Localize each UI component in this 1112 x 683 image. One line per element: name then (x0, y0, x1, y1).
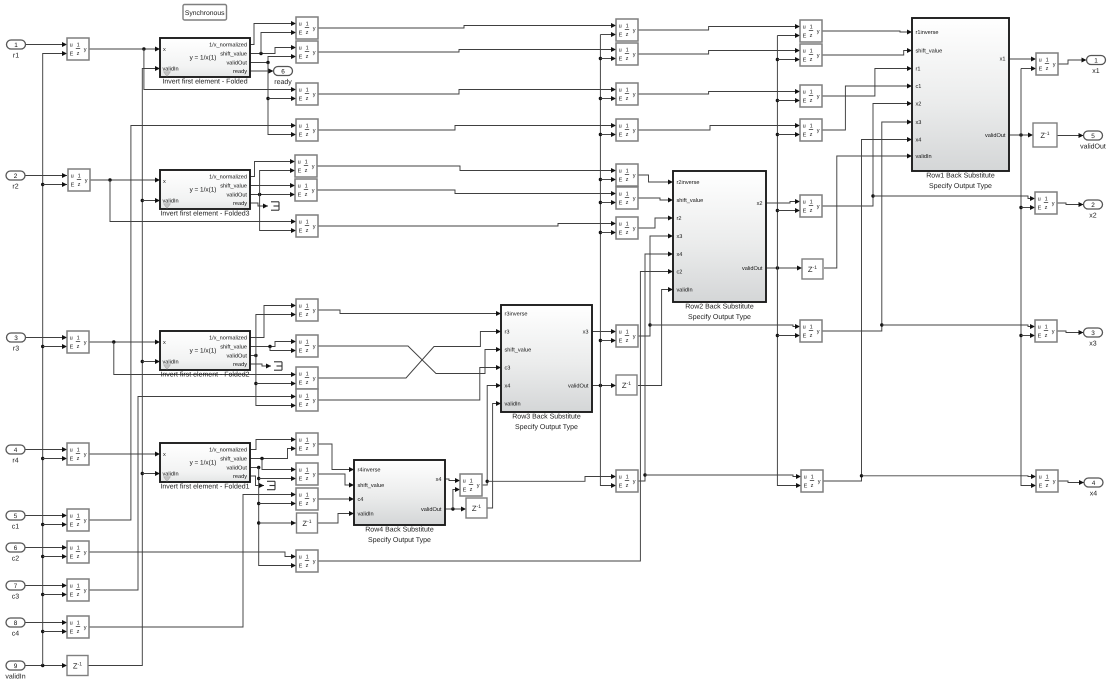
svg-text:z: z (77, 554, 80, 560)
svg-text:Specify Output Type: Specify Output Type (688, 313, 751, 321)
svg-text:y: y (84, 452, 87, 458)
svg-text:1: 1 (810, 25, 813, 31)
wire r2 delay to Folded3.x (89, 178, 160, 183)
svg-text:y: y (84, 625, 87, 631)
wire Folded shift branch to D1 enable (261, 30, 296, 54)
svg-text:y: y (85, 178, 88, 184)
svg-text:1: 1 (78, 174, 81, 180)
hold D3 (296, 83, 318, 105)
wire E1 to F1 (638, 24, 800, 30)
svg-text:y: y (313, 442, 316, 448)
wire hold D12 to Row3 c3 (318, 365, 501, 400)
wire Folded2 shift branch to D10 enable (270, 347, 296, 354)
svg-text:Specify Output Type: Specify Output Type (368, 536, 431, 544)
svg-text:z: z (306, 476, 309, 482)
hold F1 (800, 20, 822, 42)
wire G2 up to Row1 x2 (822, 101, 912, 206)
hold x4 output (1036, 470, 1058, 492)
svg-text:z: z (810, 333, 813, 339)
svg-text:x4: x4 (677, 252, 683, 258)
svg-text:1: 1 (77, 621, 80, 627)
hold D9 (296, 299, 318, 321)
svg-text:y: y (1053, 479, 1056, 485)
svg-text:c4: c4 (12, 631, 20, 638)
delay Z after Row2 validOut (802, 259, 823, 279)
svg-text:Specify Output Type: Specify Output Type (929, 182, 992, 190)
svg-text:r2inverse: r2inverse (677, 179, 700, 186)
svg-text:u: u (619, 191, 622, 197)
svg-text:y: y (633, 128, 636, 134)
svg-text:z: z (626, 200, 629, 206)
svg-text:y: y (313, 50, 316, 56)
svg-text:y: y (312, 188, 315, 194)
svg-text:1: 1 (626, 222, 629, 228)
svg-text:u: u (70, 447, 73, 453)
svg-text:u: u (71, 173, 74, 179)
svg-text:x: x (163, 340, 166, 346)
hold G3 x3 (800, 320, 822, 342)
svg-text:y: y (313, 497, 316, 503)
svg-text:z: z (626, 132, 629, 138)
svg-text:r1: r1 (916, 67, 921, 73)
wire hold D1 to E1 (318, 23, 616, 28)
svg-text:y: y (633, 334, 636, 340)
inport 1 r1 (7, 40, 26, 60)
svg-text:z: z (626, 96, 629, 102)
wire Z to outport validOut (1057, 133, 1084, 138)
svg-text:1: 1 (1094, 57, 1098, 64)
subsystem Row4 Back Substitute (354, 460, 445, 544)
svg-text:c1: c1 (12, 524, 20, 531)
svg-text:y = 1/x(1): y = 1/x(1) (190, 459, 217, 466)
svg-text:z: z (810, 132, 813, 138)
inport 5 c1 (6, 511, 25, 531)
wire hold D15 to Row4 c4 (318, 497, 354, 502)
svg-text:1/x_normalized: 1/x_normalized (209, 335, 247, 342)
wire Folded1 shift branch to hold D14 (262, 459, 296, 473)
wire Row3 validOut to Z (592, 383, 616, 388)
wire Row1 validOut enable bus (1019, 66, 1036, 488)
svg-text:ready: ready (233, 68, 247, 75)
wire c2 delay to hold (89, 552, 296, 559)
svg-text:u: u (299, 393, 302, 399)
svg-text:c3: c3 (12, 594, 20, 601)
wire c4 port to delay (25, 620, 67, 625)
svg-text:z: z (810, 208, 813, 214)
subsystem Invert first element - Folded (160, 38, 250, 86)
svg-text:u: u (299, 467, 302, 473)
wire x3 long line to G3 (650, 324, 800, 329)
enabled delay c4 (67, 616, 89, 638)
svg-text:ready: ready (233, 200, 247, 207)
wire F1 to Row1 r1inverse (822, 30, 912, 35)
svg-text:E: E (1039, 484, 1043, 490)
svg-text:Synchronous: Synchronous (185, 10, 225, 17)
svg-text:E: E (70, 555, 74, 561)
svg-text:x4: x4 (1090, 491, 1098, 498)
inport 2 r2 (6, 171, 25, 191)
wire hold D10 to Row3 shift_value crossing (318, 346, 501, 374)
svg-text:7: 7 (14, 583, 18, 590)
wire validIn port to Z delay (25, 663, 67, 668)
svg-text:r3inverse: r3inverse (505, 311, 528, 318)
wire Row1 x1 to G1 (1009, 57, 1036, 62)
svg-text:u: u (803, 48, 806, 54)
wire E7 to Row2 r2 (638, 216, 673, 229)
wire r1 delay to Folded.x (89, 47, 160, 52)
wire Folded3 validOut branch to D7 enable (260, 195, 296, 234)
svg-text:validIn: validIn (505, 401, 521, 408)
hold E7 (616, 217, 638, 239)
wire Folded1 1/x_normalized to hold D13 (250, 437, 296, 450)
svg-text:1: 1 (77, 514, 80, 520)
wire r4 port to delay (25, 447, 67, 452)
hold D10 (296, 335, 318, 357)
svg-text:y: y (313, 559, 316, 565)
svg-text:4: 4 (1092, 480, 1096, 487)
svg-text:E: E (804, 484, 808, 490)
outport 5 validOut (1080, 131, 1106, 151)
svg-text:c2: c2 (677, 270, 683, 276)
wire E3 to F3 (638, 89, 800, 94)
outport 3 x3 (1084, 328, 1103, 348)
svg-text:y: y (1052, 201, 1055, 207)
svg-text:y: y (817, 204, 820, 210)
terminator Folded2 ready (274, 362, 282, 370)
wire hold D7 to E7 (318, 221, 616, 226)
svg-text:z: z (77, 522, 80, 528)
svg-text:u: u (463, 478, 466, 484)
wire x2 long line to output hold (873, 196, 1035, 201)
svg-text:z: z (1045, 205, 1048, 211)
wire Row4 x4 to delay (445, 478, 460, 483)
svg-text:1: 1 (626, 475, 629, 481)
svg-text:validOut: validOut (226, 60, 247, 67)
wire Folded2 validOut branch to D11 D12 enables (254, 356, 296, 409)
hold D1 (296, 17, 318, 39)
wire r3 branch to hold (114, 342, 296, 377)
svg-text:x4: x4 (916, 138, 922, 144)
svg-text:validOut: validOut (568, 383, 589, 390)
svg-text:4: 4 (14, 447, 18, 454)
svg-text:x4: x4 (436, 477, 442, 483)
svg-text:u: u (1039, 474, 1042, 480)
wire hold D6 to E6 (317, 190, 616, 196)
svg-text:1: 1 (810, 325, 813, 331)
svg-text:shift_value: shift_value (220, 456, 247, 463)
svg-text:2: 2 (14, 173, 18, 180)
svg-text:1: 1 (306, 46, 309, 52)
svg-text:u: u (299, 339, 302, 345)
svg-text:y: y (313, 224, 316, 230)
svg-text:E: E (619, 57, 623, 63)
svg-text:1/x_normalized: 1/x_normalized (209, 447, 247, 454)
svg-text:x2: x2 (1089, 213, 1097, 220)
svg-text:E: E (1038, 334, 1042, 340)
wire Row3 validOut enable bus to E column (599, 32, 616, 488)
svg-text:E: E (70, 52, 74, 58)
wire r3 port to delay (25, 335, 67, 340)
wire output hold to outport x4 (1058, 480, 1084, 485)
svg-text:y: y (84, 550, 87, 556)
svg-text:1: 1 (1046, 58, 1049, 64)
wire Folded2 1/x_normalized to hold D9 (250, 303, 296, 338)
wire hold D2 to E2 (318, 47, 616, 52)
wire Folded2 validOut branch to D9 enable (256, 312, 296, 356)
wire E6 to Row2 shift_value (638, 198, 673, 203)
wire c1 delay to hold (89, 123, 296, 520)
svg-text:E: E (71, 183, 75, 189)
svg-text:Invert first element - Folded: Invert first element - Folded (162, 78, 247, 86)
wire E9 up to Row2 x4 (638, 252, 673, 482)
svg-text:u: u (299, 554, 302, 560)
svg-text:E: E (803, 34, 807, 40)
svg-text:E: E (70, 593, 74, 599)
delay Z validOut output (1033, 123, 1057, 147)
wire hold D13 to Row4 r4inverse (318, 444, 354, 472)
svg-text:u: u (619, 47, 622, 53)
svg-text:E: E (803, 133, 807, 139)
svg-text:E: E (803, 334, 807, 340)
wire r1 branch to hold (144, 49, 296, 92)
svg-text:1: 1 (626, 88, 629, 94)
wire F2 to Row1 shift_value (822, 48, 912, 55)
svg-text:c1: c1 (916, 84, 922, 90)
svg-text:r1inverse: r1inverse (916, 29, 939, 36)
wire Row4 Z to Row3 validIn (486, 401, 501, 508)
svg-text:validIn: validIn (677, 287, 693, 294)
svg-text:y: y (633, 92, 636, 98)
svg-text:1: 1 (1045, 197, 1048, 203)
svg-text:y: y (817, 29, 820, 35)
wire x3 long line to output hold (882, 324, 1035, 329)
svg-text:1/x_normalized: 1/x_normalized (209, 42, 247, 49)
svg-text:r2: r2 (12, 184, 18, 191)
svg-text:1/x_normalized: 1/x_normalized (209, 174, 247, 181)
svg-text:Row1 Back Substitute: Row1 Back Substitute (926, 172, 995, 180)
wire validIn enable bus (41, 51, 67, 666)
outport 1 x1 (1087, 56, 1106, 76)
svg-text:z: z (306, 54, 309, 60)
svg-text:z: z (470, 487, 473, 493)
wire hold D5 to E5 (317, 166, 616, 173)
svg-text:E: E (299, 349, 303, 355)
svg-text:validOut: validOut (226, 465, 247, 472)
svg-text:r4inverse: r4inverse (358, 467, 381, 474)
svg-text:E: E (299, 477, 303, 483)
wire E9 branch to G4 (645, 474, 801, 479)
svg-text:E: E (619, 97, 623, 103)
svg-text:y: y (313, 308, 316, 314)
svg-text:u: u (299, 371, 302, 377)
svg-text:E: E (299, 97, 303, 103)
wire G4 up to Row1 x4 (823, 137, 912, 481)
svg-text:z: z (306, 446, 309, 452)
svg-text:y: y (84, 340, 87, 346)
wire Row2 validOut to Z (766, 266, 802, 271)
wire hold D11 to Row3 r3 crossing (318, 329, 501, 378)
wire Row2 validOut enable bus (776, 33, 801, 488)
svg-text:validOut: validOut (985, 132, 1006, 139)
svg-text:1: 1 (1046, 475, 1049, 481)
hold x4 after Row4 (460, 474, 482, 496)
svg-text:z: z (810, 57, 813, 63)
wire hold D16 to Row2 c2 (318, 269, 673, 561)
enabled delay r3 (67, 331, 89, 353)
wire F4 to Row1 c1 (822, 84, 912, 131)
wire x4 delayed to Row3 x4 (482, 383, 501, 485)
wire Row4 validOut branch to delay enable (453, 487, 460, 509)
hold E4 (616, 119, 638, 141)
svg-text:3: 3 (14, 335, 18, 342)
svg-text:y: y (84, 47, 87, 53)
svg-text:z: z (306, 348, 309, 354)
wire G1 to outport x1 (1058, 58, 1087, 65)
svg-text:E: E (299, 403, 303, 409)
svg-text:1: 1 (306, 493, 309, 499)
svg-text:u: u (619, 123, 622, 129)
outport 2 x2 (1084, 200, 1103, 220)
hold D4 (296, 119, 318, 141)
enabled delay r4 (67, 443, 89, 465)
svg-text:y: y (313, 92, 316, 98)
svg-text:1: 1 (306, 438, 309, 444)
svg-text:validIn: validIn (358, 511, 374, 518)
wire r2 branch to hold (110, 180, 296, 224)
hold E6 (616, 187, 638, 209)
svg-text:y: y (817, 329, 820, 335)
hold D15 (296, 488, 318, 510)
svg-text:u: u (70, 545, 73, 551)
wire output hold to outport x3 (1057, 330, 1084, 335)
svg-text:z: z (1046, 66, 1049, 72)
wire x4 delayed branch to E9 (487, 474, 616, 481)
hold D13 (296, 433, 318, 455)
wire E5 to Row2 r2inverse (638, 175, 673, 185)
svg-text:u: u (299, 21, 302, 27)
svg-text:c4: c4 (358, 497, 364, 503)
enabled delay r1 (67, 38, 89, 60)
svg-text:z: z (306, 563, 309, 569)
svg-text:ready: ready (274, 78, 292, 86)
wire E4 to F4 (638, 123, 800, 130)
svg-text:u: u (1038, 324, 1041, 330)
svg-text:E: E (70, 457, 74, 463)
svg-text:z: z (810, 33, 813, 39)
svg-text:validOut: validOut (226, 353, 247, 360)
hold D7 (296, 215, 318, 237)
svg-text:y: y (1052, 329, 1055, 335)
wire F3 to Row1 r1 (822, 66, 912, 96)
svg-text:z: z (306, 132, 309, 138)
svg-text:y: y (633, 173, 636, 179)
svg-text:x1: x1 (1000, 57, 1006, 63)
svg-text:u: u (70, 513, 73, 519)
outport 6 ready (274, 67, 293, 87)
svg-text:z: z (77, 51, 80, 57)
svg-text:E: E (803, 209, 807, 215)
svg-text:1: 1 (626, 124, 629, 130)
svg-text:c3: c3 (505, 366, 511, 372)
svg-text:u: u (299, 303, 302, 309)
svg-text:shift_value: shift_value (220, 51, 247, 58)
svg-text:1: 1 (810, 90, 813, 96)
svg-text:x2: x2 (757, 201, 763, 207)
svg-text:x3: x3 (916, 120, 922, 126)
svg-text:z: z (77, 456, 80, 462)
svg-text:y: y (817, 128, 820, 134)
svg-text:y: y (313, 344, 316, 350)
svg-text:E: E (619, 339, 623, 345)
svg-text:z: z (306, 402, 309, 408)
svg-text:u: u (70, 42, 73, 48)
wire hold D4 to E4 (318, 123, 616, 130)
svg-text:y: y (633, 28, 636, 34)
svg-text:r1: r1 (13, 53, 19, 60)
svg-text:Row4 Back Substitute: Row4 Back Substitute (365, 526, 434, 534)
wire Folded validOut branch to D3 D4 enables (266, 63, 296, 138)
svg-text:z: z (77, 592, 80, 598)
svg-text:y: y (818, 479, 821, 485)
hold D5 (295, 155, 317, 177)
svg-text:E: E (803, 99, 807, 105)
svg-text:y: y (313, 398, 316, 404)
svg-text:E: E (299, 31, 303, 37)
svg-text:E: E (803, 58, 807, 64)
svg-text:1: 1 (470, 479, 473, 485)
svg-text:1: 1 (306, 340, 309, 346)
svg-text:ready: ready (233, 473, 247, 480)
hold x1 output (1036, 53, 1058, 75)
wire Row4 validOut to Z (445, 507, 466, 512)
wire r2 port to delay (25, 173, 67, 178)
delay Z after Row3 validOut (616, 375, 637, 395)
svg-text:1: 1 (306, 468, 309, 474)
svg-text:Row3 Back Substitute: Row3 Back Substitute (512, 413, 581, 421)
svg-text:u: u (1038, 196, 1041, 202)
svg-text:Specify Output Type: Specify Output Type (515, 423, 578, 431)
svg-text:1: 1 (14, 42, 18, 49)
svg-text:y: y (1053, 62, 1056, 68)
svg-text:y: y (477, 483, 480, 489)
svg-text:E: E (298, 169, 302, 175)
delay Z Row4 validIn (297, 513, 318, 533)
svg-text:5: 5 (14, 513, 18, 520)
svg-text:y: y (312, 164, 315, 170)
svg-text:u: u (619, 329, 622, 335)
svg-text:x: x (163, 179, 166, 185)
wire c3 delay to hold (89, 394, 296, 590)
hold E1 (616, 19, 638, 41)
hold G2 x2 (800, 195, 822, 217)
inport 4 r4 (6, 445, 25, 465)
wire output hold to outport x2 (1057, 202, 1084, 207)
svg-text:u: u (298, 183, 301, 189)
svg-text:6: 6 (281, 68, 285, 75)
hold D2 (296, 41, 318, 63)
svg-text:E: E (619, 33, 623, 39)
hold x3 output (1035, 320, 1057, 342)
svg-text:E: E (299, 55, 303, 61)
svg-text:validOut: validOut (742, 265, 763, 272)
svg-text:shift_value: shift_value (505, 347, 532, 354)
hold D6 (295, 179, 317, 201)
svg-text:validOut: validOut (421, 506, 442, 513)
svg-text:E: E (70, 345, 74, 351)
svg-text:z: z (626, 177, 629, 183)
svg-text:y = 1/x(1): y = 1/x(1) (190, 347, 217, 354)
svg-text:shift_value: shift_value (916, 48, 943, 55)
